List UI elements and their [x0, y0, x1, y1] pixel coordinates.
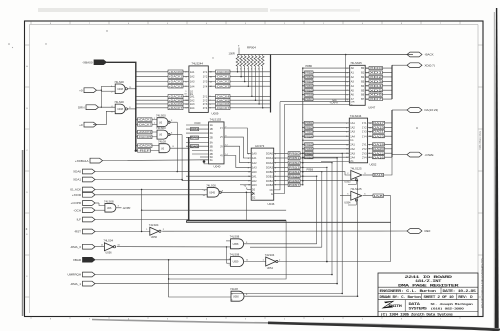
clock pin triangle [251, 192, 254, 196]
ic U009 74LS244 [189, 66, 208, 113]
svg-text:DATA: DATA [409, 302, 421, 306]
label PRB6 [305, 93, 314, 96]
svg-text:1A1: 1A1 [350, 121, 355, 125]
svg-text:DIR: DIR [351, 102, 355, 104]
label PRB5 out [288, 175, 300, 178]
wire ELF vertical [274, 102, 280, 190]
svg-text:2Y1: 2Y1 [203, 94, 208, 98]
wire [99, 106, 116, 108]
svg-text:XDA1: XDA1 [73, 178, 81, 182]
wire [303, 176, 317, 244]
wire [101, 85, 115, 87]
wire PRB7 to U052 [303, 152, 350, 154]
svg-text:XD0: XD0 [370, 66, 384, 70]
svg-text:PRB3: PRB3 [305, 130, 313, 134]
svg-text:PRB2: PRB2 [305, 126, 313, 130]
resistor RP004-6 [254, 56, 257, 66]
label PRB1 [305, 121, 314, 124]
svg-text:+DACK7: +DACK7 [169, 106, 184, 110]
nand gate U008b [115, 104, 125, 114]
svg-text:+XIOR: +XIOR [72, 193, 82, 197]
wire [93, 111, 115, 124]
label DA22 [373, 152, 385, 155]
svg-text:PRB1: PRB1 [289, 156, 301, 160]
wire [97, 89, 102, 91]
wire [244, 261, 266, 263]
svg-text:PRB0: PRB0 [289, 152, 301, 156]
svg-text:SYSTEMS: SYSTEMS [409, 307, 428, 311]
wire U040 4Y to U046 [224, 156, 251, 168]
svg-text:U008: U008 [117, 108, 123, 111]
svg-text:+DACK5: +DACK5 [169, 98, 184, 102]
wire [300, 157, 303, 159]
label DA18 [373, 143, 385, 146]
tri-state buffer U054 [351, 191, 362, 200]
wire U046 out PRB3 [274, 166, 288, 168]
wire [384, 157, 393, 175]
wire bus thick [188, 137, 190, 220]
svg-text:2G: 2G [190, 93, 193, 96]
nand gate U045 [207, 188, 219, 198]
wire +5 pin [238, 48, 240, 55]
svg-text:2A4: 2A4 [190, 106, 195, 110]
svg-text:(616) 982-3000: (616) 982-3000 [431, 307, 465, 311]
wire [300, 152, 303, 154]
wire DA21 output [368, 131, 392, 133]
svg-text:3Y: 3Y [220, 145, 223, 148]
svg-text:2A1: 2A1 [350, 143, 355, 147]
wire PRB5 to U047 [303, 89, 350, 91]
ic U046 latch [251, 148, 274, 200]
wire PRB7 to U047 [303, 98, 350, 100]
wire XD6 output [365, 94, 392, 96]
svg-text:DA21: DA21 [373, 130, 385, 134]
resistor RP004-5 [251, 56, 254, 66]
svg-text:PRB7: PRB7 [305, 97, 313, 101]
svg-text:74LS153: 74LS153 [210, 118, 222, 122]
svg-text:74L08: 74L08 [230, 287, 238, 291]
svg-text:REV: D: REV: D [458, 295, 472, 299]
svg-text:74LS125: 74LS125 [350, 166, 362, 170]
wire DA bus [391, 110, 393, 157]
svg-text:IO_ACK: IO_ACK [70, 188, 81, 192]
wire U046 out PRB7 [274, 184, 288, 186]
svg-text:ENGINEER: C.L. Burton: ENGINEER: C.L. Burton [380, 289, 437, 293]
svg-text:PRB1: PRB1 [305, 121, 313, 125]
wire [128, 108, 136, 110]
wire [300, 171, 303, 173]
wire PRB4 to U052 [303, 135, 350, 137]
wire +5 bus [237, 54, 413, 56]
wire [128, 88, 136, 90]
wire [303, 172, 351, 175]
wire [186, 124, 209, 126]
svg-text:U058: U058 [233, 243, 239, 246]
svg-text:2Y1: 2Y1 [362, 143, 367, 147]
wire [95, 189, 203, 191]
label PRB5 [305, 143, 314, 146]
wire [95, 171, 177, 173]
wire XD4 output [365, 85, 392, 87]
svg-text:-XBA00: -XBA00 [82, 61, 93, 65]
wire PRB3 to U052 [303, 131, 350, 133]
svg-text:4Y: 4Y [220, 155, 223, 158]
svg-text:U060: U060 [233, 295, 239, 298]
wire -XBA00 bus [107, 62, 136, 150]
label PRB7 [305, 97, 314, 100]
resistor RP004-7 [258, 56, 261, 66]
wire XD3 output [365, 80, 392, 82]
label DA16 [373, 156, 385, 159]
svg-text:1A3: 1A3 [350, 130, 355, 134]
label XD4 [369, 84, 383, 87]
svg-text:1A4: 1A4 [350, 134, 355, 138]
svg-text:DOA1: DOA1 [266, 156, 274, 160]
wire PRB6 to U052 [303, 148, 350, 150]
wire 2G [321, 160, 349, 162]
wire [303, 158, 337, 284]
svg-text:2A0: 2A0 [252, 170, 257, 174]
svg-text:DOA3: DOA3 [266, 166, 274, 170]
svg-text:-DACK7: -DACK7 [216, 106, 230, 110]
wire REF line [162, 230, 407, 232]
svg-text:74LS04: 74LS04 [103, 239, 113, 243]
wire [186, 137, 209, 139]
svg-text:DMA PAGE REG: DMA PAGE REG [479, 131, 482, 150]
nand gate U041b [157, 130, 168, 139]
label +DACK3 [138, 130, 153, 134]
wire U040 3Y to U046 [224, 146, 251, 163]
label +DACK1 [138, 118, 153, 122]
svg-text:PRB0: PRB0 [306, 65, 313, 68]
resistor RP004-2 [240, 56, 243, 66]
svg-text:XD1: XD1 [370, 71, 384, 75]
wire [200, 156, 209, 158]
svg-text:+XDBA1A: +XDBA1A [75, 159, 89, 163]
svg-text:DA23: DA23 [373, 134, 385, 138]
svg-text:2A2: 2A2 [190, 98, 195, 102]
svg-text:U052: U052 [370, 163, 377, 167]
svg-text:2A3: 2A3 [190, 102, 195, 106]
svg-text:1A1: 1A1 [190, 70, 195, 74]
wire +DACK3 input [136, 85, 189, 87]
and gate U042 [159, 144, 170, 153]
wire [95, 209, 105, 211]
resistor RP004-1 [236, 56, 239, 66]
svg-text:U053: U053 [344, 180, 351, 184]
svg-text:1Y4: 1Y4 [362, 134, 367, 138]
wire XD2 output [365, 76, 392, 78]
svg-text:DRAWN BY: C. Burton: DRAWN BY: C. Burton [380, 295, 421, 299]
wire [340, 195, 351, 197]
svg-text:PRB6: PRB6 [307, 168, 314, 172]
svg-text:XDA0: XDA0 [73, 170, 81, 174]
wire -DACK6 output [208, 103, 270, 105]
svg-text:-DACK5: -DACK5 [216, 98, 230, 102]
svg-text:+DACK1: +DACK1 [169, 75, 184, 79]
svg-text:ILF: ILF [77, 218, 82, 222]
node -BACK [407, 52, 422, 57]
svg-text:+0: +0 [79, 123, 83, 127]
svg-text:74LS04: 74LS04 [149, 223, 159, 227]
wire U046 out PRB1 [274, 157, 288, 159]
svg-text:PRB6: PRB6 [305, 93, 313, 97]
wire IA8 [363, 195, 373, 197]
svg-text:U046: U046 [268, 202, 275, 206]
label PRB5 [305, 89, 314, 92]
label PRB4 [305, 135, 314, 138]
ic U052 74LS244 [349, 118, 367, 163]
svg-text:2B: 2B [210, 136, 213, 140]
label DA19 [373, 126, 385, 129]
label +DACK4 [168, 95, 183, 99]
wire bus thick h [187, 220, 287, 222]
svg-text:PRB5: PRB5 [305, 143, 313, 147]
wire [95, 246, 104, 248]
label +DACK0 [138, 144, 153, 148]
label XD1 [369, 71, 383, 74]
svg-text:-DACK1: -DACK1 [216, 75, 230, 79]
svg-text:+DACK0: +DACK0 [138, 144, 152, 148]
svg-text:2A3: 2A3 [252, 183, 257, 187]
wire DA16 [363, 174, 373, 176]
svg-text:4A: 4A [210, 149, 213, 153]
svg-text:PRB4: PRB4 [305, 134, 313, 138]
label XD5 [369, 89, 383, 92]
wire DA19 output [368, 126, 392, 128]
wire PRB0 to U052 [303, 156, 350, 158]
wire +DACK5 input [136, 99, 189, 101]
label +DACK3 [168, 84, 183, 88]
wire [231, 292, 342, 294]
svg-text:1G: 1G [350, 140, 353, 142]
wire DA23 output [368, 135, 392, 137]
label DA23 [373, 135, 385, 138]
label DA16 [373, 173, 384, 176]
svg-text:PRB5: PRB5 [289, 174, 301, 178]
svg-text:1A1: 1A1 [252, 156, 257, 160]
svg-text:HC373: HC373 [255, 144, 264, 148]
wire [186, 175, 251, 177]
wire XD7 output [365, 98, 392, 100]
tri-state buffer U053 [351, 171, 362, 180]
svg-text:74L08: 74L08 [158, 140, 166, 144]
svg-text:1A0: 1A0 [252, 152, 257, 156]
svg-text:-DACK5: -DACK5 [138, 135, 152, 139]
wire [300, 162, 303, 164]
label -DACK7 [216, 106, 231, 110]
svg-text:1A2: 1A2 [252, 161, 257, 165]
title block [378, 273, 478, 317]
wire -DACK2 output [208, 81, 270, 83]
wire [95, 179, 182, 181]
svg-text:1A2: 1A2 [350, 126, 355, 130]
wire [182, 135, 251, 181]
label PRB6 [305, 147, 314, 150]
label K041 [190, 128, 198, 131]
wire [226, 240, 231, 242]
label -DACK4 [216, 95, 231, 99]
svg-text:XD3: XD3 [370, 79, 384, 83]
svg-text:XD5: XD5 [370, 88, 384, 92]
wire PRB2 to U052 [303, 126, 350, 128]
wire +DACK4 input [136, 95, 189, 97]
wire -EXPR [116, 207, 122, 209]
wire [303, 181, 358, 297]
svg-text:U045: U045 [209, 191, 215, 194]
wire XD5 output [365, 89, 392, 91]
inverter U054a [266, 257, 276, 266]
wire +DACK7 input [136, 107, 189, 109]
label IA8 [373, 194, 384, 197]
svg-text:DATE: 10-2-85: DATE: 10-2-85 [443, 289, 477, 293]
wire [303, 167, 327, 261]
wire XD0 output [365, 67, 392, 69]
wire XD bus [391, 65, 393, 99]
wire -DACK1 output [208, 76, 270, 78]
label XD3 [369, 80, 383, 83]
wire [186, 132, 209, 134]
label XD6 [369, 93, 383, 96]
svg-text:1Y4: 1Y4 [203, 84, 208, 88]
wire [136, 119, 157, 121]
label PRB2 [305, 126, 314, 129]
svg-text:2Y4: 2Y4 [362, 155, 367, 159]
wire [192, 153, 209, 155]
label PRB4 out [288, 170, 300, 173]
wire [300, 175, 303, 177]
svg-text:RP004: RP004 [247, 46, 256, 50]
wire U046 out PRB6 [274, 180, 288, 182]
label +DACK0 [168, 70, 183, 74]
wire U046 out PRB2 [274, 162, 288, 164]
label DA21 [373, 130, 385, 133]
wire [169, 121, 177, 123]
svg-text:+DACK4: +DACK4 [169, 94, 184, 98]
label PRB1 out [288, 156, 300, 159]
ic U047 74LS645 [350, 65, 366, 105]
svg-text:PD-2241-10 REV A 2241 IO BOA: PD-2241-10 REV A 2241 IO BOARD ZDS [480, 258, 484, 308]
svg-text:-REF: -REF [138, 149, 151, 153]
svg-text:2A1: 2A1 [252, 174, 257, 178]
wire [100, 86, 102, 107]
svg-text:1Y: 1Y [220, 127, 223, 130]
svg-text:1A2: 1A2 [190, 75, 195, 79]
wire [95, 274, 332, 276]
node XD(0:7) [407, 63, 422, 68]
wire U046 out PRB5 [274, 175, 288, 177]
node DA(16:23) [407, 108, 422, 113]
wire U040 2Y to U046 [224, 137, 251, 158]
wire [186, 145, 209, 147]
wire [142, 209, 287, 211]
svg-text:PRB4: PRB4 [305, 84, 313, 88]
label -DACK2 [216, 80, 231, 84]
wire enable U054 [348, 200, 356, 205]
wire -DACK0 output [208, 71, 270, 73]
wire [250, 246, 322, 248]
svg-text:3B: 3B [210, 144, 213, 148]
svg-text:74LS08: 74LS08 [230, 252, 240, 256]
label PRB0 [305, 156, 314, 159]
wire [300, 180, 303, 182]
wire U058 out [244, 243, 317, 245]
label -DACK5 [138, 135, 153, 139]
svg-text:1B: 1B [210, 127, 213, 131]
svg-text:1Y3: 1Y3 [362, 130, 367, 134]
svg-text:D2: D2 [252, 196, 256, 200]
svg-text:74LS08: 74LS08 [230, 235, 240, 239]
label -DACK3 [216, 84, 231, 88]
svg-text:DOB0: DOB0 [266, 170, 274, 174]
svg-text:U06: U06 [107, 207, 112, 210]
svg-text:DA18: DA18 [373, 143, 385, 147]
svg-text:1A3: 1A3 [252, 166, 257, 170]
svg-text:PRB5: PRB5 [305, 88, 313, 92]
svg-text:DA19: DA19 [373, 126, 385, 130]
svg-text:G: G [351, 105, 353, 107]
wire enable U053 [348, 180, 356, 185]
wire [95, 259, 231, 261]
wire +CAPR [284, 104, 349, 106]
wire [136, 131, 157, 133]
svg-text:-DMA_1: -DMA_1 [70, 282, 81, 286]
svg-text:PRB3: PRB3 [289, 166, 301, 170]
label +DACK2 [168, 80, 183, 84]
wire -DACK5 output [208, 99, 270, 101]
svg-text:2Y2: 2Y2 [362, 147, 367, 151]
svg-text:DOA0: DOA0 [266, 152, 274, 156]
svg-text:-DACK4: -DACK4 [216, 94, 230, 98]
label DA1 [190, 136, 198, 139]
wire PRB1 to U047 [303, 72, 350, 74]
svg-text:1Y1: 1Y1 [362, 121, 367, 125]
wire PRB bus [302, 68, 304, 185]
svg-text:-DMA_0: -DMA_0 [70, 245, 81, 249]
wire [95, 194, 207, 196]
svg-text:XBAR: XBAR [73, 258, 82, 262]
svg-text:DA17: DA17 [373, 121, 385, 125]
label DA3 [190, 145, 198, 148]
svg-text:74LS00: 74LS00 [206, 183, 216, 187]
wire [95, 219, 189, 221]
svg-text:1A: 1A [210, 123, 213, 127]
svg-text:+0: +0 [79, 88, 83, 92]
svg-text:DOB1: DOB1 [266, 174, 274, 178]
wire [392, 64, 407, 66]
wire [278, 261, 391, 263]
label XD0 [369, 67, 383, 70]
svg-text:CK: CK [270, 189, 274, 192]
wire [136, 145, 159, 147]
label -DACK7 [138, 123, 153, 127]
wire [303, 172, 322, 248]
wire DA20 output [368, 148, 392, 150]
svg-text:U047: U047 [368, 106, 375, 110]
svg-text:-RST: -RST [74, 230, 81, 234]
svg-text:2Y3: 2Y3 [203, 102, 208, 106]
svg-text:XD2: XD2 [370, 75, 384, 79]
svg-text:U009: U009 [212, 111, 219, 115]
wire PRB0 to U047 [303, 67, 350, 69]
wire PRB1 to U052 [303, 122, 350, 124]
wire [227, 262, 231, 264]
svg-text:2A2: 2A2 [350, 147, 355, 151]
svg-text:St. Joseph Michigan: St. Joseph Michigan [431, 302, 474, 306]
svg-text:-DACK2: -DACK2 [216, 80, 230, 84]
label PRB4 [305, 84, 314, 87]
label PRB3 [305, 130, 314, 133]
